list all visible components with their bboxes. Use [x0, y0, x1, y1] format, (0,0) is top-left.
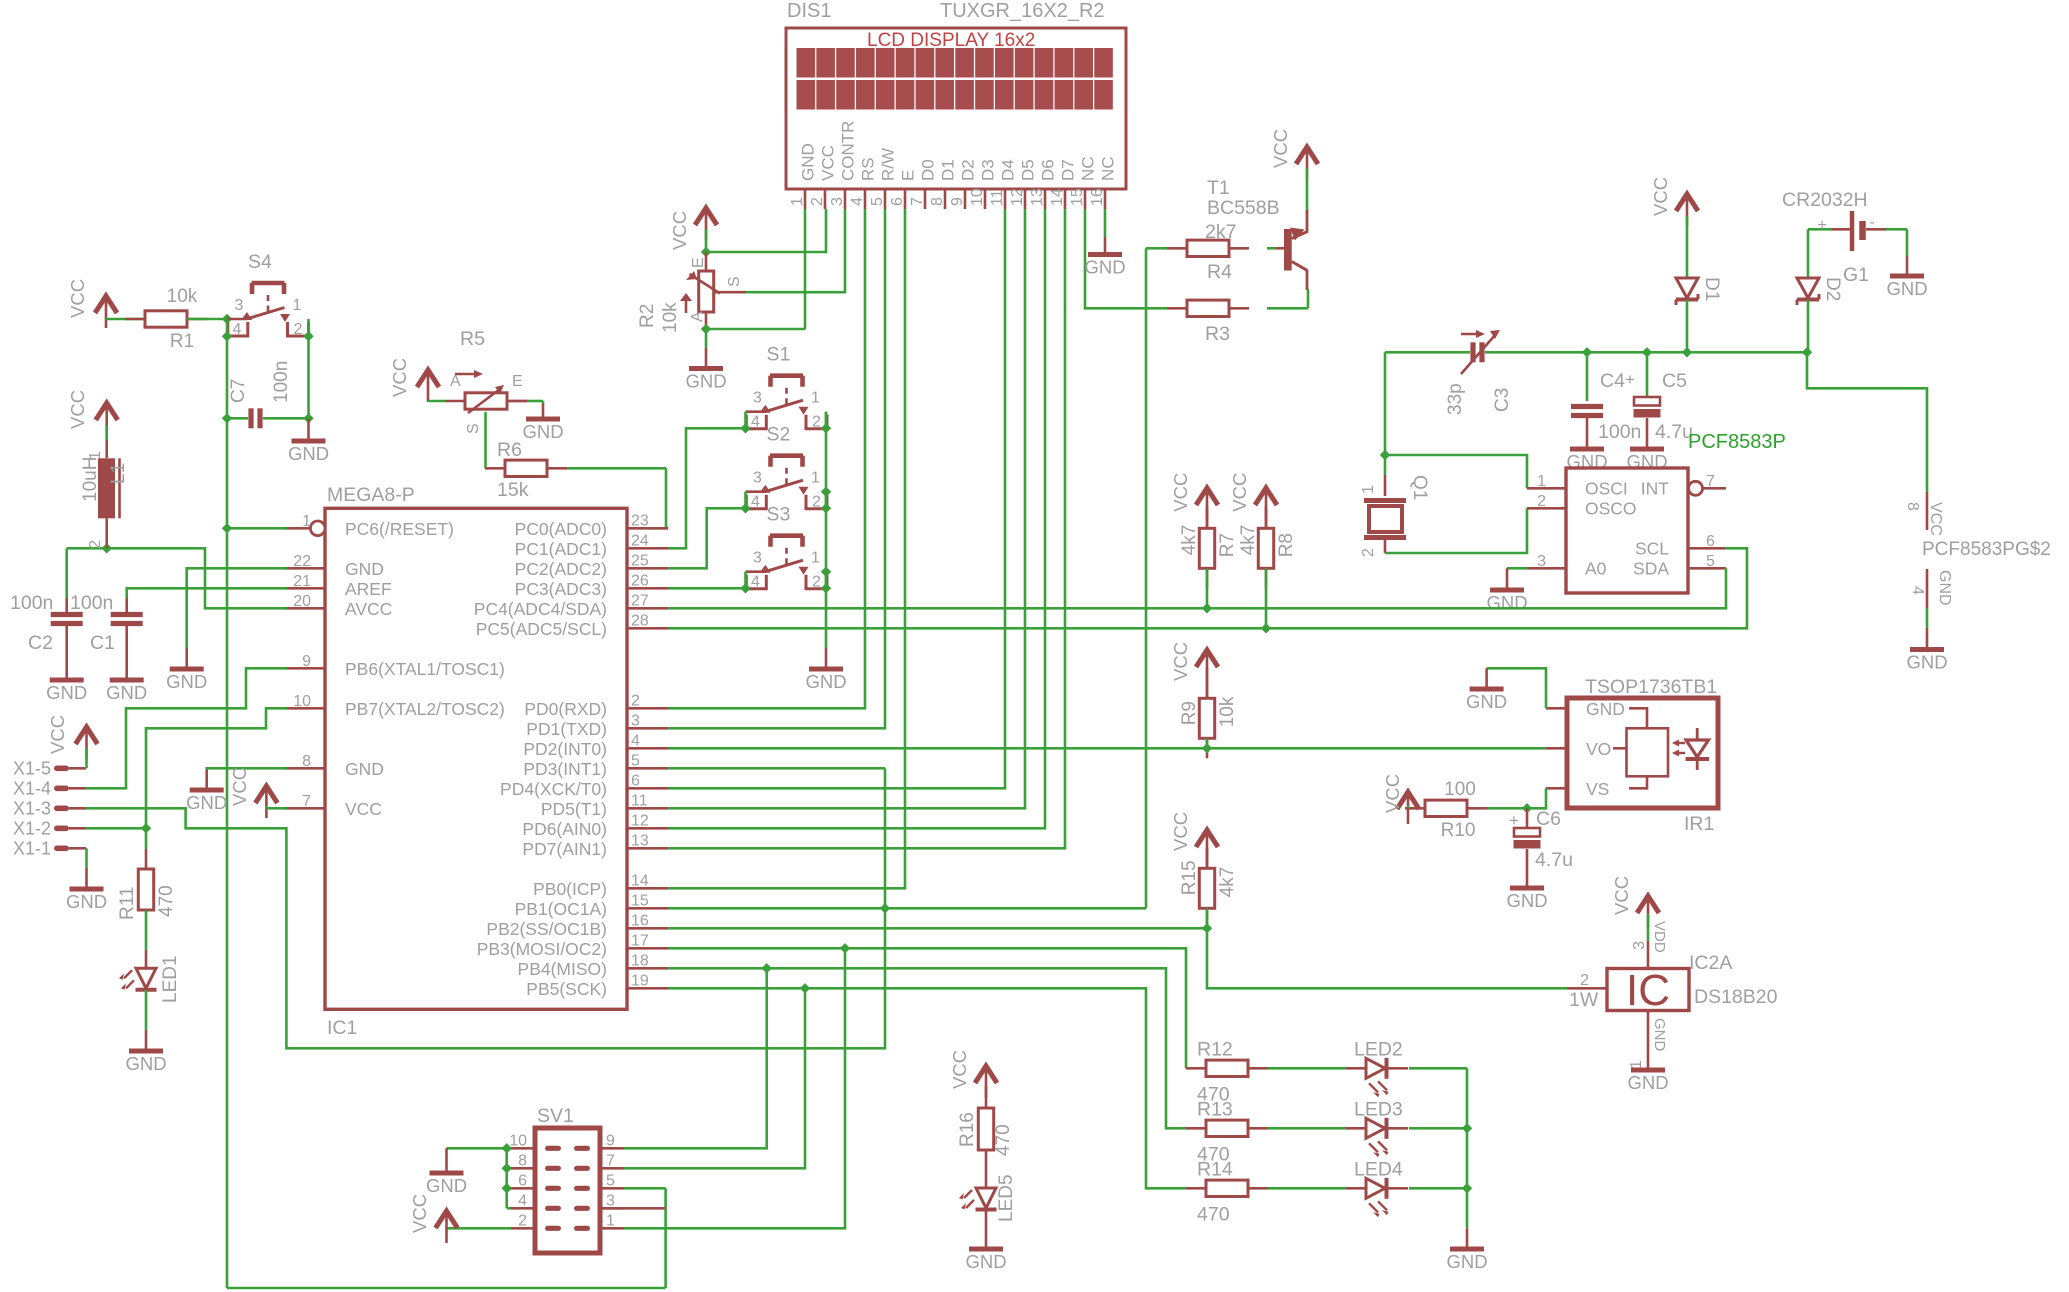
svg-text:PB3(MOSI/OC2): PB3(MOSI/OC2) — [477, 939, 607, 959]
svg-text:PB1(OC1A): PB1(OC1A) — [515, 899, 607, 919]
svg-text:12: 12 — [1009, 188, 1026, 206]
svg-text:2: 2 — [518, 1212, 527, 1229]
svg-text:PB7(XTAL2/TOSC2): PB7(XTAL2/TOSC2) — [345, 699, 505, 719]
svg-text:Q1: Q1 — [1409, 475, 1430, 500]
svg-text:6: 6 — [631, 772, 640, 789]
svg-text:10k: 10k — [1217, 696, 1238, 727]
svg-text:DIS1: DIS1 — [787, 0, 831, 22]
svg-text:GND: GND — [1506, 890, 1547, 911]
svg-text:R11: R11 — [117, 887, 138, 920]
svg-text:C2: C2 — [28, 632, 53, 654]
svg-text:E: E — [690, 257, 707, 268]
svg-text:10: 10 — [293, 693, 311, 710]
svg-text:1: 1 — [1537, 473, 1546, 490]
svg-text:10k: 10k — [167, 286, 198, 307]
svg-text:VCC: VCC — [67, 279, 88, 318]
svg-text:LED3: LED3 — [1354, 1098, 1403, 1120]
svg-text:OSCO: OSCO — [1585, 499, 1637, 519]
svg-text:10: 10 — [509, 1132, 527, 1149]
svg-text:D4: D4 — [999, 159, 1018, 181]
svg-text:9: 9 — [949, 197, 966, 206]
svg-text:GND: GND — [1586, 699, 1625, 719]
svg-text:PC4(ADC4/SDA): PC4(ADC4/SDA) — [474, 599, 607, 619]
svg-text:3: 3 — [753, 470, 762, 487]
svg-text:VCC: VCC — [1229, 473, 1250, 512]
svg-text:A: A — [450, 373, 461, 390]
svg-text:20: 20 — [293, 593, 311, 610]
svg-text:PD3(INT1): PD3(INT1) — [523, 759, 607, 779]
svg-text:VS: VS — [1586, 779, 1609, 799]
svg-text:X1-3: X1-3 — [13, 798, 51, 818]
svg-text:PD6(AIN0): PD6(AIN0) — [522, 819, 607, 839]
svg-text:2: 2 — [812, 574, 821, 591]
svg-text:8: 8 — [929, 197, 946, 206]
svg-text:4: 4 — [1909, 586, 1926, 595]
svg-text:+: + — [1509, 811, 1519, 830]
svg-text:-: - — [1869, 214, 1874, 231]
svg-text:7: 7 — [302, 793, 311, 810]
svg-text:1: 1 — [1628, 1060, 1645, 1069]
svg-text:VO: VO — [1586, 739, 1611, 759]
svg-text:BC558B: BC558B — [1207, 197, 1280, 219]
svg-text:5: 5 — [869, 197, 886, 206]
svg-text:C7: C7 — [228, 379, 249, 403]
svg-text:VCC: VCC — [819, 145, 838, 181]
svg-text:3: 3 — [829, 197, 846, 206]
svg-text:D2: D2 — [1822, 277, 1843, 301]
svg-text:23: 23 — [631, 512, 649, 529]
svg-text:PD0(RXD): PD0(RXD) — [524, 699, 607, 719]
svg-text:A0: A0 — [1585, 559, 1607, 579]
svg-text:VCC: VCC — [229, 767, 250, 806]
svg-text:D7: D7 — [1059, 159, 1078, 181]
svg-text:100n: 100n — [10, 592, 53, 614]
svg-text:R12: R12 — [1197, 1038, 1233, 1060]
svg-text:VCC: VCC — [67, 390, 88, 429]
svg-text:NC: NC — [1079, 156, 1098, 181]
svg-text:T1: T1 — [1207, 177, 1230, 199]
svg-text:SDA: SDA — [1633, 559, 1669, 579]
svg-text:VCC: VCC — [409, 1194, 430, 1233]
svg-text:LCD DISPLAY 16x2: LCD DISPLAY 16x2 — [867, 30, 1035, 51]
svg-text:LED2: LED2 — [1354, 1038, 1403, 1060]
svg-text:SCL: SCL — [1635, 539, 1669, 559]
svg-text:16: 16 — [631, 912, 649, 929]
svg-text:2: 2 — [631, 692, 640, 709]
svg-text:4: 4 — [849, 197, 866, 206]
svg-text:27: 27 — [631, 592, 649, 609]
svg-text:GND: GND — [1627, 1072, 1668, 1093]
svg-text:470: 470 — [993, 1124, 1014, 1156]
svg-text:TSOP1736TB1: TSOP1736TB1 — [1585, 676, 1717, 698]
svg-text:1: 1 — [87, 451, 104, 460]
svg-text:VCC: VCC — [1382, 774, 1403, 813]
svg-text:GND: GND — [1084, 257, 1125, 278]
svg-text:C4: C4 — [1600, 370, 1625, 392]
svg-text:VCC: VCC — [1650, 177, 1671, 216]
svg-text:C3: C3 — [1492, 388, 1513, 412]
svg-text:R5: R5 — [460, 328, 485, 350]
svg-text:S: S — [726, 276, 743, 287]
svg-text:17: 17 — [631, 932, 649, 949]
svg-text:R14: R14 — [1197, 1158, 1233, 1180]
svg-text:11: 11 — [631, 792, 648, 809]
svg-text:+: + — [1817, 217, 1826, 234]
svg-text:14: 14 — [1049, 188, 1066, 206]
svg-text:S3: S3 — [767, 504, 791, 526]
svg-text:GND: GND — [186, 792, 227, 813]
svg-text:2: 2 — [1580, 972, 1589, 989]
svg-text:GND: GND — [1466, 691, 1507, 712]
svg-text:D5: D5 — [1019, 159, 1038, 181]
svg-text:L1: L1 — [108, 463, 129, 484]
svg-text:PB5(SCK): PB5(SCK) — [526, 979, 607, 999]
svg-text:PC3(ADC3): PC3(ADC3) — [515, 579, 607, 599]
svg-text:4k7: 4k7 — [1179, 525, 1200, 556]
svg-text:GND: GND — [345, 759, 384, 779]
svg-text:R6: R6 — [497, 439, 522, 461]
svg-text:28: 28 — [631, 612, 649, 629]
svg-text:AREF: AREF — [345, 579, 392, 599]
svg-text:PC5(ADC5/SCL): PC5(ADC5/SCL) — [476, 619, 607, 639]
svg-text:X1-4: X1-4 — [13, 778, 51, 798]
svg-text:PCF8583PG$2: PCF8583PG$2 — [1922, 539, 2051, 560]
svg-text:GND: GND — [965, 1251, 1006, 1272]
svg-text:7: 7 — [606, 1152, 615, 1169]
svg-text:OSCI: OSCI — [1585, 479, 1628, 499]
svg-text:10: 10 — [969, 188, 986, 206]
svg-text:9: 9 — [606, 1132, 615, 1149]
svg-text:R10: R10 — [1441, 820, 1476, 841]
svg-text:R9: R9 — [1179, 701, 1200, 725]
svg-text:18: 18 — [631, 952, 649, 969]
svg-text:GND: GND — [66, 891, 107, 912]
svg-text:GND: GND — [288, 443, 329, 464]
svg-text:R1: R1 — [170, 331, 194, 352]
svg-text:CR2032H: CR2032H — [1782, 189, 1868, 211]
svg-text:3: 3 — [606, 1192, 615, 1209]
svg-text:10k: 10k — [660, 302, 681, 333]
svg-text:C6: C6 — [1536, 808, 1561, 830]
svg-text:3: 3 — [1631, 941, 1648, 950]
svg-text:2: 2 — [1360, 548, 1377, 557]
svg-text:1: 1 — [811, 390, 820, 407]
svg-text:GND: GND — [685, 371, 726, 392]
svg-text:1: 1 — [302, 513, 311, 530]
svg-text:100: 100 — [1444, 779, 1476, 800]
svg-text:7: 7 — [909, 197, 926, 206]
svg-text:GND: GND — [426, 1175, 467, 1196]
svg-text:4: 4 — [631, 732, 640, 749]
svg-text:VCC: VCC — [1170, 473, 1191, 512]
svg-text:X1-1: X1-1 — [13, 838, 51, 858]
svg-text:2: 2 — [294, 321, 303, 338]
svg-text:PD1(TXD): PD1(TXD) — [526, 719, 607, 739]
svg-text:VCC: VCC — [1170, 812, 1191, 851]
svg-text:2: 2 — [812, 414, 821, 431]
svg-text:CONTR: CONTR — [839, 121, 858, 181]
svg-text:RS: RS — [859, 157, 878, 181]
svg-text:C5: C5 — [1662, 370, 1687, 392]
svg-text:S2: S2 — [767, 424, 791, 446]
svg-text:R3: R3 — [1205, 323, 1230, 345]
svg-text:25: 25 — [631, 552, 649, 569]
svg-text:IC2A: IC2A — [1689, 952, 1732, 974]
svg-text:S1: S1 — [767, 344, 791, 366]
svg-text:19: 19 — [631, 972, 649, 989]
svg-text:1: 1 — [1360, 485, 1377, 494]
svg-text:PC2(ADC2): PC2(ADC2) — [515, 559, 607, 579]
svg-text:22: 22 — [293, 553, 311, 570]
svg-text:PCF8583P: PCF8583P — [1688, 431, 1786, 453]
svg-text:SV1: SV1 — [537, 1105, 574, 1127]
svg-text:PC0(ADC0): PC0(ADC0) — [515, 519, 607, 539]
svg-text:D0: D0 — [919, 159, 938, 181]
svg-text:13: 13 — [631, 832, 649, 849]
svg-text:D1: D1 — [1701, 277, 1722, 301]
svg-text:VCC: VCC — [1611, 876, 1632, 915]
svg-text:VCC: VCC — [1170, 642, 1191, 681]
svg-text:GND: GND — [805, 671, 846, 692]
svg-text:TUXGR_16X2_R2: TUXGR_16X2_R2 — [940, 0, 1105, 22]
svg-text:VCC: VCC — [1927, 502, 1944, 536]
svg-text:GND: GND — [1651, 1018, 1668, 1052]
svg-text:LED1: LED1 — [160, 955, 181, 1003]
svg-text:AVCC: AVCC — [345, 599, 392, 619]
svg-text:4: 4 — [518, 1192, 527, 1209]
svg-text:GND: GND — [166, 671, 207, 692]
svg-text:PB6(XTAL1/TOSC1): PB6(XTAL1/TOSC1) — [345, 659, 505, 679]
svg-text:GND: GND — [1936, 570, 1953, 606]
svg-text:2: 2 — [87, 540, 104, 549]
svg-text:S4: S4 — [248, 251, 272, 273]
svg-text:VCC: VCC — [949, 1050, 970, 1089]
svg-text:X1-5: X1-5 — [13, 758, 51, 778]
svg-text:PC6(/RESET): PC6(/RESET) — [345, 519, 454, 539]
svg-text:2k7: 2k7 — [1205, 221, 1236, 243]
svg-text:X1-2: X1-2 — [13, 818, 51, 838]
svg-text:13: 13 — [1029, 188, 1046, 206]
svg-text:VCC: VCC — [345, 799, 382, 819]
svg-text:GND: GND — [799, 143, 818, 181]
svg-text:PD2(INT0): PD2(INT0) — [523, 739, 607, 759]
svg-text:LED5: LED5 — [996, 1174, 1017, 1222]
svg-text:3: 3 — [753, 550, 762, 567]
svg-text:IC1: IC1 — [327, 1017, 357, 1039]
svg-text:GND: GND — [522, 421, 563, 442]
svg-text:PB4(MISO): PB4(MISO) — [518, 959, 607, 979]
svg-text:5: 5 — [606, 1172, 615, 1189]
svg-text:D2: D2 — [959, 159, 978, 181]
svg-text:10uH: 10uH — [80, 457, 101, 502]
svg-text:6: 6 — [518, 1172, 527, 1189]
svg-text:4: 4 — [751, 414, 760, 431]
svg-text:E: E — [512, 373, 523, 390]
svg-text:26: 26 — [631, 572, 649, 589]
svg-text:G1: G1 — [1843, 264, 1869, 286]
svg-text:4: 4 — [751, 574, 760, 591]
svg-text:3: 3 — [235, 297, 244, 314]
svg-text:GND: GND — [1906, 652, 1947, 673]
svg-text:GND: GND — [1486, 592, 1527, 613]
svg-text:R7: R7 — [1217, 533, 1238, 557]
svg-text:6: 6 — [889, 197, 906, 206]
svg-text:R2: R2 — [637, 304, 658, 328]
svg-text:15k: 15k — [497, 479, 529, 501]
svg-text:1: 1 — [606, 1212, 615, 1229]
svg-text:VDD: VDD — [1651, 921, 1668, 953]
svg-text:R15: R15 — [1179, 860, 1200, 895]
svg-text:33p: 33p — [1445, 383, 1466, 415]
svg-text:IR1: IR1 — [1684, 813, 1714, 835]
svg-text:PB2(SS/OC1B): PB2(SS/OC1B) — [486, 919, 607, 939]
svg-text:A: A — [689, 311, 706, 322]
svg-text:16: 16 — [1089, 188, 1106, 206]
svg-text:PD4(XCK/T0): PD4(XCK/T0) — [500, 779, 607, 799]
svg-text:E: E — [899, 170, 918, 181]
svg-text:GND: GND — [106, 682, 147, 703]
svg-text:8: 8 — [302, 753, 311, 770]
svg-text:470: 470 — [1197, 1203, 1230, 1225]
svg-text:VCC: VCC — [389, 358, 410, 397]
svg-text:VCC: VCC — [669, 211, 690, 250]
svg-text:14: 14 — [631, 872, 649, 889]
svg-text:4.7u: 4.7u — [1535, 849, 1573, 871]
svg-text:15: 15 — [631, 892, 649, 909]
svg-text:2: 2 — [1537, 493, 1546, 510]
svg-text:9: 9 — [302, 653, 311, 670]
svg-text:3: 3 — [1537, 553, 1546, 570]
svg-text:NC: NC — [1099, 156, 1118, 181]
svg-text:GND: GND — [1886, 278, 1927, 299]
svg-text:8: 8 — [1904, 502, 1921, 511]
svg-text:100n: 100n — [271, 361, 292, 403]
svg-text:INT: INT — [1641, 479, 1670, 499]
svg-text:R/W: R/W — [879, 148, 898, 181]
svg-text:D1: D1 — [939, 159, 958, 181]
svg-text:100n: 100n — [1598, 421, 1641, 443]
svg-text:4k7: 4k7 — [1217, 867, 1238, 898]
svg-text:21: 21 — [293, 573, 311, 590]
svg-text:3: 3 — [631, 712, 640, 729]
svg-text:GND: GND — [46, 682, 87, 703]
svg-text:GND: GND — [1446, 1251, 1487, 1272]
svg-text:R8: R8 — [1276, 533, 1297, 557]
svg-text:1: 1 — [811, 470, 820, 487]
svg-text:12: 12 — [631, 812, 649, 829]
svg-text:C1: C1 — [90, 632, 115, 654]
svg-text:S: S — [465, 423, 482, 434]
svg-text:5: 5 — [631, 752, 640, 769]
svg-text:GND: GND — [125, 1053, 166, 1074]
svg-text:PC1(ADC1): PC1(ADC1) — [515, 539, 607, 559]
svg-text:PD7(AIN1): PD7(AIN1) — [522, 839, 607, 859]
svg-text:IC: IC — [1626, 966, 1670, 1015]
svg-text:2: 2 — [809, 197, 826, 206]
svg-text:4: 4 — [751, 494, 760, 511]
svg-text:3: 3 — [753, 390, 762, 407]
svg-text:470: 470 — [156, 885, 177, 917]
svg-text:15: 15 — [1069, 188, 1086, 206]
svg-text:4k7: 4k7 — [1238, 525, 1259, 556]
svg-text:PD5(T1): PD5(T1) — [541, 799, 607, 819]
svg-text:D6: D6 — [1039, 159, 1058, 181]
svg-text:100n: 100n — [70, 592, 113, 614]
svg-text:R16: R16 — [957, 1112, 978, 1147]
svg-text:2: 2 — [812, 494, 821, 511]
svg-text:1: 1 — [293, 297, 302, 314]
svg-text:1W: 1W — [1569, 989, 1599, 1011]
svg-text:4: 4 — [233, 321, 242, 338]
svg-text:R13: R13 — [1197, 1098, 1233, 1120]
svg-text:R4: R4 — [1207, 261, 1232, 283]
svg-text:24: 24 — [631, 532, 649, 549]
svg-text:MEGA8-P: MEGA8-P — [327, 484, 415, 506]
svg-text:PB0(ICP): PB0(ICP) — [533, 879, 607, 899]
svg-text:8: 8 — [518, 1152, 527, 1169]
svg-text:1: 1 — [789, 197, 806, 206]
svg-text:GND: GND — [345, 559, 384, 579]
svg-text:11: 11 — [989, 189, 1006, 206]
svg-text:DS18B20: DS18B20 — [1694, 986, 1778, 1008]
svg-text:+: + — [1625, 370, 1635, 389]
svg-text:1: 1 — [811, 550, 820, 567]
svg-text:LED4: LED4 — [1354, 1158, 1403, 1180]
svg-text:VCC: VCC — [47, 715, 68, 754]
svg-text:VCC: VCC — [1270, 129, 1291, 168]
svg-text:D3: D3 — [979, 159, 998, 181]
